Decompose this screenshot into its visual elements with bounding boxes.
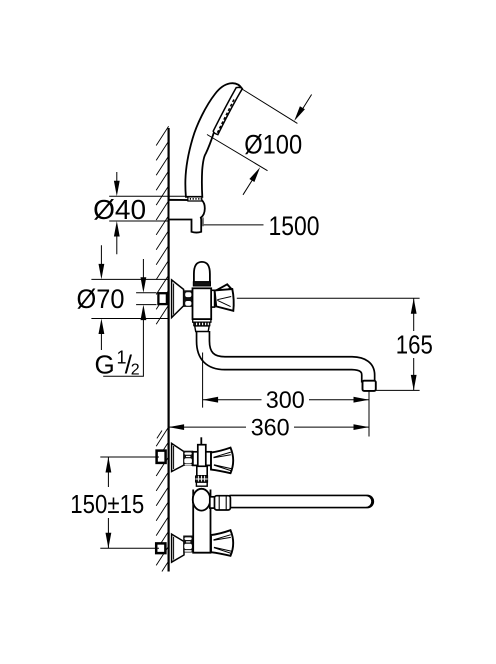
dim Ø100 arrow shafts: [243, 95, 312, 195]
arrow 360 right: [354, 424, 370, 430]
arrow 165 bottom: [411, 375, 417, 391]
arrow G1/2 bottom: [141, 305, 147, 321]
hex nut (bottom top): [183, 451, 193, 466]
spout nozzle: [363, 381, 376, 391]
escutcheon cone (bottom bottom): [172, 534, 184, 562]
hex nut (bottom bottom): [183, 536, 193, 553]
dim Ø100 ext lines: [207, 89, 297, 171]
arrow Ø70 top: [99, 264, 105, 280]
knurl band (bottom): [195, 476, 207, 486]
arrow Ø70 bottom: [99, 319, 105, 335]
svg-text:165: 165: [396, 331, 433, 359]
svg-text:1500: 1500: [269, 211, 320, 241]
arrow 300 right: [354, 397, 370, 403]
arrow Ø40 bottom: [114, 221, 120, 237]
dim G1/2 arrow shafts + leader: [103, 259, 143, 376]
dome groove ring: [193, 282, 210, 286]
svg-text:Ø100: Ø100: [244, 130, 302, 160]
dim 360 line: [169, 426, 369, 428]
dim 300 ext lines: [203, 353, 369, 437]
arrow 150 top: [106, 457, 112, 473]
svg-text:150±15: 150±15: [70, 489, 144, 519]
dim 150 line: [107, 457, 109, 548]
leader 1500: [204, 224, 264, 226]
long spout tube: [231, 495, 367, 509]
wall hatching: [156, 126, 168, 571]
dim Ø40 arrow shafts: [116, 172, 118, 254]
arrow G1/2 top: [141, 277, 147, 293]
upper mid section: [197, 466, 207, 476]
arrow Ø100 bottom: [249, 167, 260, 182]
shower holder bracket: [169, 200, 205, 233]
dim Ø40 ext lines: [109, 196, 186, 221]
diverter ball: [193, 489, 210, 511]
dim G1/2 ext lines: [136, 293, 156, 305]
dim 165 line: [413, 298, 415, 390]
top dome cap (middle): [194, 262, 210, 282]
diverter knob (bottom): [210, 496, 231, 510]
dim 300 line: [203, 399, 369, 401]
wall square inlet (bottom bottom): [156, 543, 165, 553]
svg-text:2: 2: [131, 362, 140, 379]
dim 150 ext lines: [100, 457, 159, 548]
grip ribbed nut: [188, 197, 202, 201]
dim 165 ext lines: [237, 298, 420, 390]
shower head with handle grip: [185, 83, 242, 197]
arrow 150 bottom: [106, 533, 112, 549]
handle (bottom bottom): [211, 530, 233, 556]
spray nozzle dots: [217, 100, 234, 133]
escutcheon cone (bottom top): [172, 443, 184, 471]
spout coupling knurl: [193, 319, 211, 332]
diverter knob (middle): [211, 284, 234, 311]
svg-text:G: G: [95, 350, 115, 380]
svg-text:Ø70: Ø70: [77, 284, 125, 314]
wall square inlet (bottom top): [157, 451, 166, 463]
arrow Ø40 top: [114, 181, 120, 197]
arrow 300 left: [203, 397, 219, 403]
svg-text:300: 300: [266, 387, 305, 414]
lower body (bottom): [193, 490, 210, 553]
S-spout tube: [203, 330, 368, 383]
top tee crossbar: [193, 452, 211, 466]
shower spray face: [213, 87, 242, 134]
arrow Ø100 top: [294, 106, 305, 121]
dim Ø70 ext lines: [91, 279, 169, 318]
handle (bottom top): [211, 448, 233, 474]
ball overlay: [193, 489, 210, 511]
svg-text:360: 360: [251, 414, 290, 441]
wall square inlet (middle): [158, 293, 167, 304]
arrow 165 top: [411, 298, 417, 314]
escutcheon cone (middle): [172, 280, 184, 318]
arrows: [99, 106, 417, 548]
hex nut (middle): [183, 290, 193, 307]
faucet body (middle): [193, 288, 212, 319]
dim Ø70 arrow shafts: [100, 245, 102, 350]
svg-text:Ø40: Ø40: [93, 194, 146, 225]
arrow 360 left: [169, 424, 185, 430]
wall line: [168, 128, 170, 572]
top pipe: [198, 437, 206, 466]
